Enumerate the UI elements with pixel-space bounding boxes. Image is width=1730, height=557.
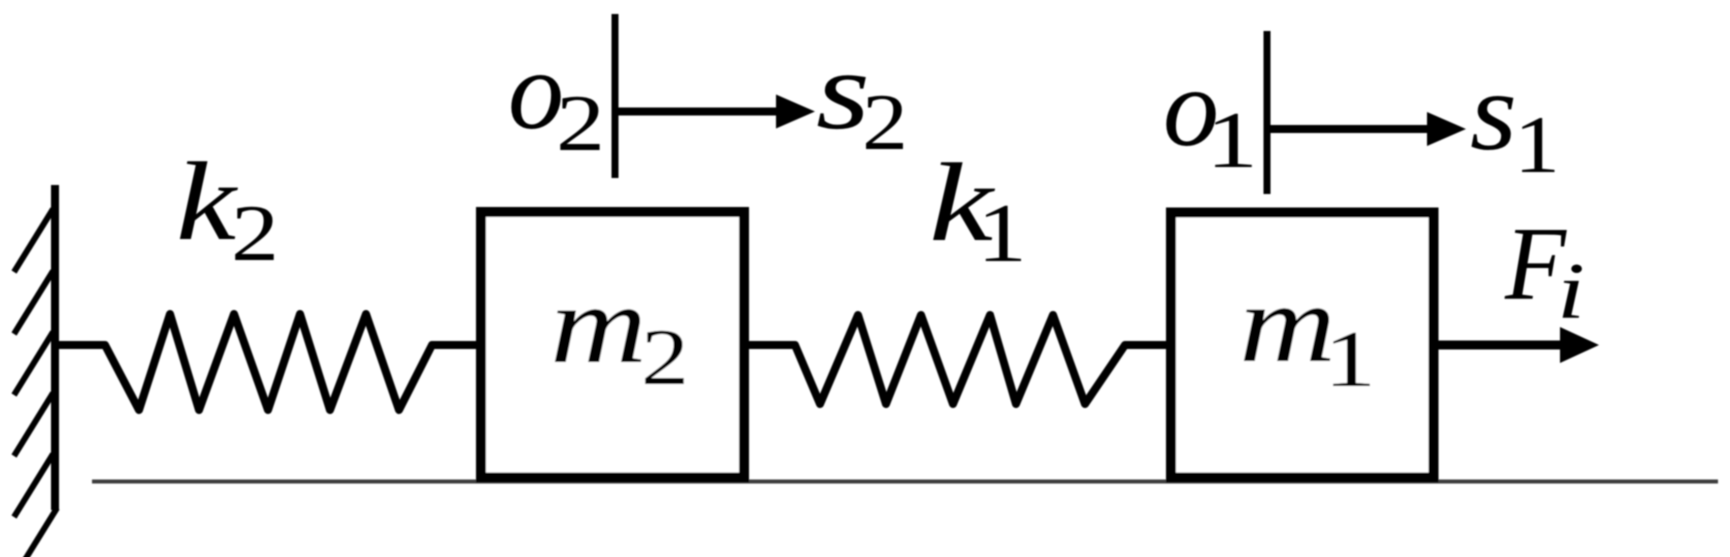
svg-text:1: 1 [1514, 99, 1560, 190]
svg-text:k: k [176, 140, 239, 264]
svg-text:1: 1 [1324, 316, 1376, 404]
svg-text:1: 1 [977, 187, 1027, 280]
svg-text:2: 2 [862, 79, 908, 167]
svg-text:2: 2 [231, 190, 279, 278]
svg-text:2: 2 [641, 314, 689, 402]
svg-text:1: 1 [1206, 97, 1258, 185]
svg-text:s: s [1470, 50, 1517, 174]
svg-text:2: 2 [556, 80, 605, 168]
svg-text:m: m [550, 263, 647, 387]
svg-text:m: m [1239, 262, 1336, 386]
svg-text:i: i [1557, 248, 1585, 336]
